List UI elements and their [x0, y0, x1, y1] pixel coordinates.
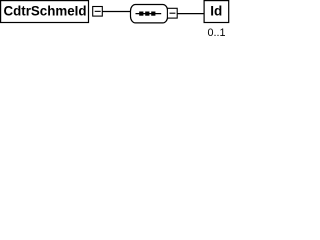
collapse box (minus) of sequence [167, 8, 177, 18]
element box CdtrSchmeId [1, 1, 89, 23]
wire from sequence to Id [177, 13, 204, 15]
sequence compositor [131, 5, 168, 23]
svg-text:CdtrSchmeId: CdtrSchmeId [4, 4, 87, 19]
svg-text:Id: Id [210, 4, 222, 19]
collapse box (minus) of CdtrSchmeId [93, 7, 103, 17]
svg-text:0..1: 0..1 [207, 27, 225, 39]
wire from CdtrSchmeId to sequence [102, 11, 132, 13]
element box Id [204, 1, 229, 23]
